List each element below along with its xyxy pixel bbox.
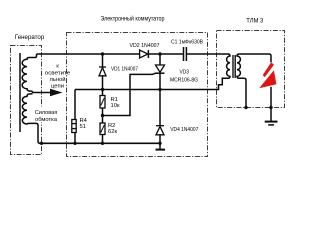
svg-text:обмотка: обмотка <box>35 117 58 123</box>
svg-text:51: 51 <box>80 124 86 130</box>
ground at spark gap <box>265 121 278 123</box>
wire VD3 to VD4 <box>159 90 161 126</box>
svg-text:Электронный коммутатор: Электронный коммутатор <box>101 15 165 23</box>
svg-text:R4: R4 <box>80 118 88 124</box>
ground at VD4 <box>159 143 161 149</box>
generator block box <box>11 46 42 155</box>
transformer T1 core <box>19 53 21 132</box>
svg-text:ТЛМ 3: ТЛМ 3 <box>246 17 263 24</box>
electronic commutator block box <box>67 33 208 157</box>
transformer T1 lower winding (power winding) <box>22 94 40 144</box>
wire top rail middle <box>148 53 183 55</box>
wire top rail right <box>187 53 229 55</box>
node at VD1 bottom <box>101 88 104 91</box>
node at VD3 top <box>158 52 161 55</box>
svg-text:Генератор: Генератор <box>15 34 45 41</box>
wire tap to lighting circuit <box>33 91 53 92</box>
wire R1 to node <box>102 108 104 123</box>
wire to R4 <box>74 90 76 120</box>
svg-text:R1: R1 <box>111 97 118 103</box>
svg-text:VD2 1N4007: VD2 1N4007 <box>130 43 160 49</box>
svg-text:MCR106-8G: MCR106-8G <box>170 77 198 83</box>
resistor R4 <box>72 120 76 133</box>
diode VD2 <box>140 50 148 58</box>
node on generator box edge <box>40 142 43 145</box>
svg-text:осветите: осветите <box>45 70 71 76</box>
svg-text:VD4 1N4007: VD4 1N4007 <box>170 127 198 133</box>
bottom rail wire <box>39 142 160 144</box>
diode VD4 <box>156 125 164 127</box>
TLM 3 block box <box>217 31 285 108</box>
resistor R2 <box>100 123 105 135</box>
white mask for winding label <box>34 107 60 123</box>
resistor R1 <box>100 96 105 109</box>
wire VD1 to R1 <box>102 90 104 96</box>
diode VD1 <box>102 54 104 67</box>
wire top rail left <box>37 53 140 55</box>
svg-text:цепи: цепи <box>51 84 64 90</box>
svg-text:62к: 62к <box>108 129 117 135</box>
transformer T2 core <box>232 55 234 78</box>
spark symbol (red lightning) <box>263 62 274 77</box>
svg-text:VD3: VD3 <box>180 70 190 76</box>
gate wire from R1-R2 node to VD3 <box>103 73 156 115</box>
capacitor C1 <box>183 47 185 61</box>
node at VD3 bottom <box>158 88 161 91</box>
arrow to lighting circuit <box>50 89 63 97</box>
node R2 bottom <box>101 142 104 145</box>
wire spark to ground <box>270 87 272 122</box>
wire R4 to bottom rail <box>74 133 76 144</box>
node R4 bottom <box>73 142 76 145</box>
node at VD1 top <box>101 52 104 55</box>
transformer T2 primary winding <box>225 54 231 78</box>
svg-text:C1 1мФх630В: C1 1мФх630В <box>171 40 203 46</box>
svg-text:VD1 1N4007: VD1 1N4007 <box>111 66 138 72</box>
svg-text:льной: льной <box>50 76 66 83</box>
node secondary to shield <box>244 106 247 109</box>
wire R2 to bottom rail <box>102 135 104 144</box>
wire middle rail <box>75 78 225 89</box>
wire secondary top to spark gap <box>239 54 271 62</box>
svg-text:Силовая: Силовая <box>35 110 58 116</box>
note text: к осветительной цепи <box>44 62 66 83</box>
node spark wire on shield <box>269 106 272 109</box>
node VD4 bottom <box>158 142 161 145</box>
thyristor VD3 <box>159 54 161 65</box>
node R1-R2 <box>101 114 104 117</box>
transformer T2 secondary winding <box>237 54 246 108</box>
svg-text:10к: 10к <box>111 103 120 109</box>
transformer T1 upper winding <box>22 54 36 91</box>
